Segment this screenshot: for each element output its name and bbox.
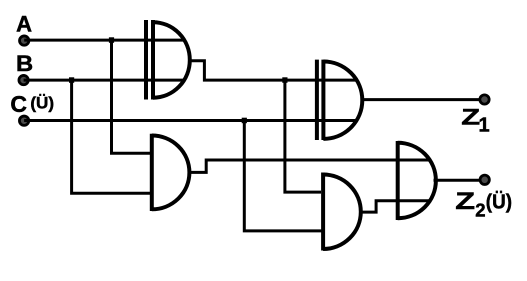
wire OR U5 output to Z2 [434, 179, 485, 182]
wire B branch down to AND U3 bottom input [72, 79, 150, 193]
XOR gate U2 ((A xor B) xor C) [317, 60, 362, 140]
XOR gate U1 (A xor B) [146, 20, 190, 100]
svg-text:C: C [10, 91, 27, 117]
wire B to XOR U1 bottom input [24, 79, 184, 82]
OR gate U5 (carry out) [398, 141, 436, 220]
svg-text:B: B [16, 51, 33, 76]
wire XOR U2 output to Z1 [361, 98, 485, 101]
svg-text:2: 2 [475, 200, 485, 221]
node B terminal dot [19, 75, 28, 84]
wire A branch down to AND U3 top input [112, 39, 151, 153]
wire U1-output branch down to AND U4 top input [285, 79, 321, 192]
svg-text:(Ü): (Ü) [30, 94, 54, 113]
svg-text:Z: Z [461, 105, 480, 130]
AND gate U3 (A and B) [152, 134, 190, 211]
junction on wire A at x=111.5 [109, 37, 114, 43]
node Z1 terminal dot [480, 95, 489, 104]
svg-text:1: 1 [479, 115, 490, 137]
wire C branch down to AND U4 bottom input [244, 119, 323, 230]
junction on wire B at x=71.6 [69, 77, 74, 83]
junction on U1 output net at x=284.6 [282, 77, 287, 83]
svg-text:A: A [16, 12, 32, 37]
junction on wire C at x=244 [242, 118, 247, 124]
svg-text:(Ü): (Ü) [486, 190, 512, 214]
node A terminal dot [20, 36, 29, 45]
AND gate U4 ((A xor B) and C) [323, 173, 361, 251]
wire C to XOR U2 bottom input [24, 119, 356, 122]
wire XOR U1 output jog to XOR U2 top input [189, 61, 358, 80]
wire A to XOR U1 top input [24, 39, 183, 42]
node C terminal dot [19, 116, 28, 125]
wire AND U3 output jog to OR U5 top input [188, 160, 430, 172]
wire AND U4 output jog to OR U5 bottom input [359, 201, 430, 212]
svg-text:Z: Z [455, 188, 475, 215]
node Z2 terminal dot [480, 175, 489, 184]
